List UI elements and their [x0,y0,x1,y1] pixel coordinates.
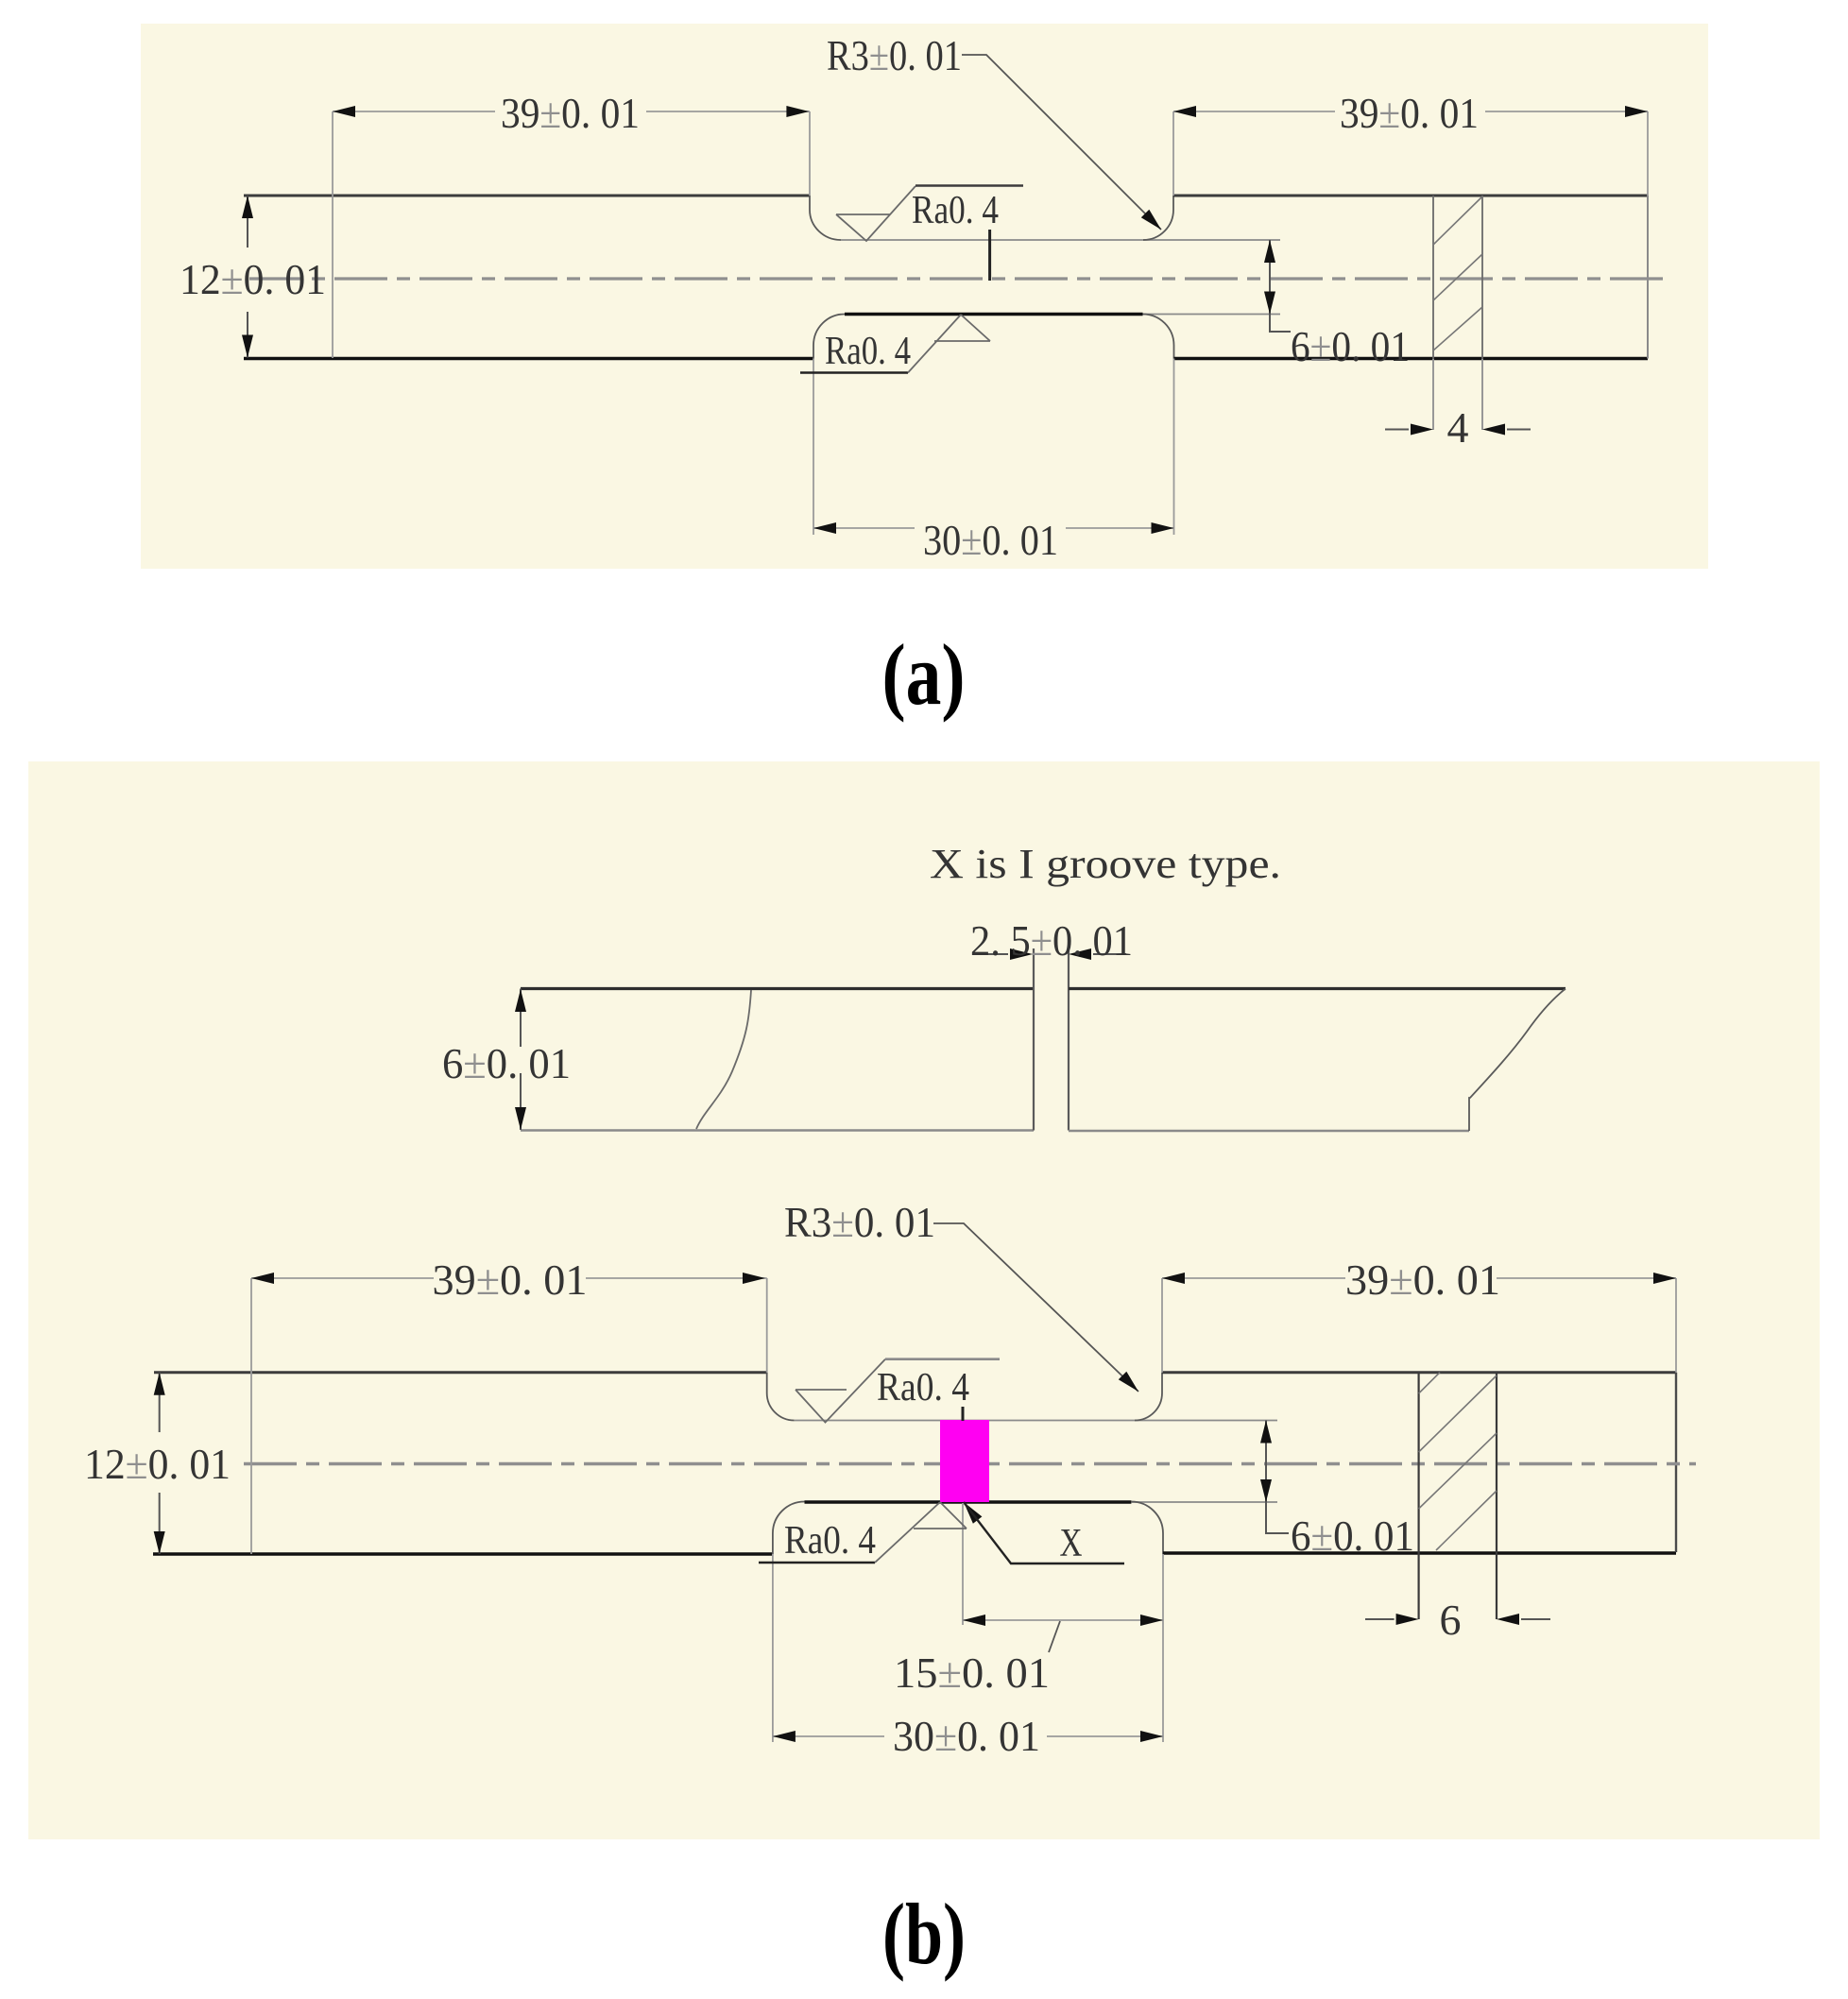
dimension 2.5 (upper joint): dimension line and tails [975,953,1126,955]
dimension 39 left (b): extension at x=811.7 above bar [766,1278,768,1373]
dimension 30 (b): left extension line [772,1554,774,1742]
surface symbol Ra0.4 top (b): pointer tick to surface [962,1407,965,1421]
svg-text:Ra0. 4: Ra0. 4 [877,1366,969,1410]
dimension 4 weld band (a): arrows [1411,424,1433,436]
leader R3 (b): arrow [1119,1372,1138,1392]
dimension 30 (b): arrows [773,1731,796,1742]
upper joint: groove left wall [1033,948,1035,1131]
specimen (b) centerline [244,1462,1696,1465]
dimension 39 right (a): extension at x=1242 above bar [1172,111,1174,196]
dimension 6 weld band (b): arrows [1396,1614,1419,1625]
dimension 39 right (a): dimension line [1173,111,1648,112]
upper joint: left plate top edge [521,987,1034,990]
weld band (a) left edge [1432,196,1434,430]
weld band (b) left edge [1417,1373,1419,1619]
dimension 6 (b): arrows [1260,1421,1272,1444]
specimen (a) bottom edge right segment [1174,357,1649,361]
dimension 4 weld band (a): extension lines [1433,359,1482,430]
svg-text:15±0. 01: 15±0. 01 [894,1649,1050,1697]
specimen (a) bottom-right fillet R3 and wall [1143,315,1174,359]
surface symbol Ra0.4 top (b): triangle top line [796,1389,847,1391]
specimen (a) right end edge [1647,196,1649,359]
leader X (b): leader line and shelf [964,1502,1124,1563]
svg-text:X: X [1060,1522,1083,1565]
weld band (b) hatch lines [1419,1373,1497,1550]
surface symbol Ra0.4 top (a): triangle top line [836,214,890,215]
upper joint: left plate bottom edge [521,1129,1034,1132]
dimension 6 (upper joint): arrows [515,989,526,1012]
svg-text:39±0. 01: 39±0. 01 [433,1256,588,1304]
surface symbol Ra0.4 bottom (b): long leg [875,1502,940,1563]
weld band (a) right edge [1481,196,1483,430]
surface symbol Ra0.4 top (a): check mark [836,186,915,241]
surface symbol Ra0.4 bottom (a): shelf line [800,371,908,374]
dimension 39 left (b): extension line at x=266 [250,1278,252,1554]
surface symbol Ra0.4 bottom (b): shelf line [759,1562,875,1564]
dimension 39 left (b): arrows [251,1273,274,1284]
svg-text:39±0. 01: 39±0. 01 [1340,89,1479,137]
upper joint: left plate break curve [696,990,751,1129]
specimen (a) top-right fillet R3 and wall [1143,196,1173,240]
dimension 39 right (b): arrows [1162,1273,1185,1284]
svg-text:4: 4 [1447,403,1469,452]
specimen (a) gauge top surface (thin) with extension to 6-dim [841,239,1280,241]
dimension 15 (b): arrows [963,1615,985,1626]
specimen (b) gauge bottom extension to 6-dim [1131,1501,1277,1503]
surface symbol Ra0.4 bottom (b): inverted triangle [914,1502,967,1529]
svg-text:R3±0. 01: R3±0. 01 [827,31,962,79]
surface symbol Ra0.4 bottom (a): long leg [908,315,961,373]
upper joint: groove right wall [1068,948,1069,1131]
dimension 6 (a): dimension line at x=1344 with elbow leader [1270,240,1291,332]
specimen (a) top-left notch wall and fillet R3 [810,196,841,240]
surface symbol Ra0.4 top (b): check mark [796,1359,885,1423]
specimen (b) top-left notch wall and fillet R3 [767,1373,795,1421]
dimension 39 right (b): extension at x=1230 above bar [1161,1278,1163,1373]
specimen (b) bottom edge right segment [1163,1551,1676,1554]
specimen (b) top edge right segment [1162,1371,1676,1374]
dimension 4 weld band (a): arrow tails [1385,429,1531,431]
svg-text:R3±0. 01: R3±0. 01 [784,1198,935,1246]
leader X (b): arrow at weld root [964,1502,982,1524]
weld insert (magenta) in gauge middle (b) [940,1420,989,1502]
upper joint: right plate bottom edge [1069,1130,1469,1133]
dimension 6 weld band (b): arrow tails [1365,1618,1550,1620]
specimen (b) top edge left segment [154,1371,767,1374]
dimension 39 right (b): dimension line [1162,1277,1676,1279]
svg-text:30±0. 01: 30±0. 01 [893,1712,1040,1760]
svg-text:6±0. 01: 6±0. 01 [442,1039,571,1087]
surface symbol Ra0.4 top (a): pointer tick to surface [988,230,991,281]
svg-text:Ra0. 4: Ra0. 4 [912,189,999,232]
svg-text:6±0. 01: 6±0. 01 [1291,322,1410,370]
dimension 30 (b): dimension line [773,1735,1163,1737]
dimension 30 (a): arrows [813,522,836,534]
svg-text:12±0. 01: 12±0. 01 [84,1440,231,1488]
svg-text:(b): (b) [882,1886,966,1982]
dimension 39 left (a): extension line at x=857 (above bar) [809,111,811,196]
specimen (b) bottom-right fillet R3 and wall [1131,1501,1163,1554]
specimen (b) gauge top surface (thin) with extension to 6-dim [795,1420,1277,1422]
dimension 39 left (a): extension line at x=352 [332,111,334,358]
dimension 6 (b): dimension line at x=1340 with elbow leader [1266,1421,1289,1534]
specimen (b) right end edge [1675,1373,1677,1552]
dimension 2.5 (upper joint): arrows [1010,948,1033,960]
leader R3 (a): arrow [1141,210,1161,230]
dimension 39 right (a): extension at x=1744 above bar [1647,111,1649,196]
surface symbol Ra0.4 bottom (a): inverted triangle [934,315,990,341]
dimension 39 left (b): dimension line [251,1277,767,1279]
dimension 15 (b): right extension line (notch wall to 30-dim) [1162,1554,1164,1742]
weld band (b) right edge [1496,1373,1497,1619]
dimension 39 left (a): dimension line [333,111,810,112]
svg-text:6±0. 01: 6±0. 01 [1291,1512,1414,1560]
svg-text:6: 6 [1440,1596,1462,1644]
specimen (a) top edge right segment [1173,195,1648,197]
dimension 12 (b): dimension line at x=168.7 [159,1373,161,1554]
dimension 30 (a): right extension line [1173,359,1175,536]
specimen (a) gauge bottom surface (thick) [845,313,1143,316]
dimension 39 right (b): extension at x=1774 above bar [1675,1278,1677,1373]
dimension 12 (b): arrows [154,1373,165,1395]
dimension 39 right (a): arrows [1173,106,1196,117]
specimen (b) top-right fillet R3 and wall [1135,1373,1162,1421]
svg-text:2. 5±0. 01: 2. 5±0. 01 [970,916,1133,965]
svg-text:X is I groove type.: X is I groove type. [930,841,1281,887]
specimen (a) centerline [249,277,1664,280]
upper joint: right plate torn edge [1469,989,1566,1132]
svg-text:Ra0. 4: Ra0. 4 [825,330,911,373]
svg-text:12±0. 01: 12±0. 01 [180,255,326,303]
leader R3 (a): leader line [962,55,1161,230]
weld band (a) hatch lines [1433,196,1482,350]
specimen (a) top edge left segment [244,195,810,197]
svg-text:(a): (a) [882,626,966,723]
specimen (a) gauge bottom extension to 6-dim [1143,314,1281,316]
dimension 12 (a): dimension line at x=262 [247,196,248,358]
specimen (b) bottom edge left segment [153,1552,773,1555]
svg-text:39±0. 01: 39±0. 01 [501,89,640,137]
dimension 6 (a): arrows [1264,240,1275,263]
dimension 15 (b): dimension line [963,1619,1163,1621]
specimen (b) gauge bottom surface (thick) [805,1500,1132,1503]
svg-text:30±0. 01: 30±0. 01 [923,516,1058,564]
dimension 30 (a): left extension line [813,359,814,536]
leader R3 (b): leader line [933,1223,1138,1392]
dimension 15 (b): left extension line [962,1503,964,1625]
dimension 12 (a): arrows [242,196,253,218]
specimen (b) bottom-left notch wall and fillet R3 [773,1502,805,1555]
specimen (a) bottom-left notch wall and fillet R3 [813,315,845,359]
svg-text:Ra0. 4: Ra0. 4 [784,1519,876,1563]
panel (a) cream background [141,24,1708,569]
dimension 15 (b): text tick to line [1049,1621,1060,1652]
svg-text:39±0. 01: 39±0. 01 [1345,1256,1500,1304]
surface symbol Ra0.4 top (a): overbar [915,184,1023,187]
dimension 39 left (a): arrows [333,106,355,117]
surface symbol Ra0.4 top (b): overbar [885,1358,1000,1360]
specimen (a) bottom edge left segment [244,357,813,361]
upper joint: right plate top edge [1069,987,1566,990]
dimension 6 (upper joint): dimension line at x=551 [520,989,522,1131]
panel (b) cream background [28,761,1820,1839]
dimension 30 (a): dimension line [813,527,1174,529]
